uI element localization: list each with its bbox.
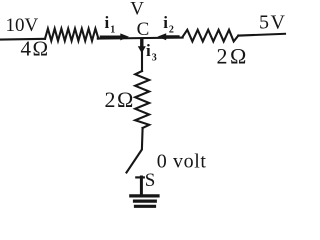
svg-text:0 volt: 0 volt xyxy=(157,151,207,173)
svg-text:S: S xyxy=(145,170,156,191)
svg-text:5V: 5V xyxy=(259,11,286,33)
svg-text:V: V xyxy=(130,0,144,20)
svg-text:C: C xyxy=(137,19,150,40)
svg-text:2Ω: 2Ω xyxy=(217,44,249,69)
svg-text:2Ω: 2Ω xyxy=(105,87,135,112)
svg-text:10V: 10V xyxy=(6,15,39,36)
svg-text:4Ω: 4Ω xyxy=(21,37,50,61)
